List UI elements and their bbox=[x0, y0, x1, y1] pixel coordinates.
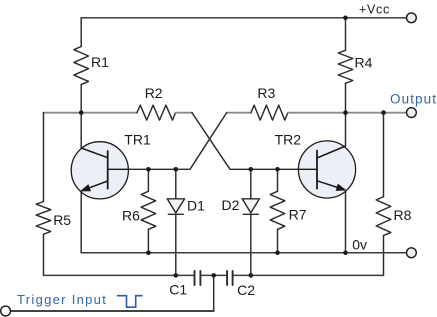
svg-text:C2: C2 bbox=[237, 282, 255, 298]
trigger pulse symbol bbox=[117, 296, 143, 308]
node trigger / C1 C2 bbox=[211, 273, 216, 278]
svg-text:Trigger Input: Trigger Input bbox=[17, 292, 107, 307]
node R7 bottom bbox=[275, 250, 280, 255]
transistor TR2 bbox=[298, 141, 356, 198]
svg-text:R5: R5 bbox=[53, 212, 71, 228]
node R8 top bbox=[381, 110, 386, 115]
svg-text:D2: D2 bbox=[222, 197, 240, 213]
wire trigger input line bbox=[11, 310, 214, 312]
resistor R5 bbox=[36, 202, 51, 235]
wire D1 column top bbox=[175, 169, 177, 199]
wire R4 column bbox=[345, 18, 347, 146]
terminal Output bbox=[407, 108, 417, 118]
diode D1 bbox=[167, 199, 184, 215]
wire R6 column top bbox=[147, 169, 149, 191]
svg-text:R2: R2 bbox=[145, 85, 163, 101]
wire R7 column bottom bbox=[277, 229, 279, 252]
node D1 bottom bbox=[174, 273, 179, 278]
wire TR1 emitter column bbox=[80, 191, 82, 253]
node D2 bottom bbox=[249, 273, 254, 278]
wire R8 column top bbox=[383, 113, 385, 197]
capacitor C2 bbox=[227, 271, 233, 285]
svg-text:TR2: TR2 bbox=[275, 132, 302, 148]
resistor R3 bbox=[251, 105, 288, 120]
svg-text:D1: D1 bbox=[187, 198, 205, 214]
svg-text:R8: R8 bbox=[394, 207, 412, 223]
wire node R1 to R2 bbox=[81, 112, 137, 114]
svg-text:R1: R1 bbox=[91, 54, 109, 70]
wire R7 column top bbox=[277, 169, 279, 191]
svg-text:R4: R4 bbox=[355, 54, 373, 70]
node TR2 emitter 0v bbox=[343, 250, 348, 255]
node R1 / R2 bbox=[79, 110, 84, 115]
resistor R4 bbox=[338, 50, 353, 83]
wire line B segment 1 bbox=[200, 274, 227, 276]
wire R2 right lead bbox=[176, 112, 192, 114]
svg-text:R6: R6 bbox=[122, 208, 140, 224]
node R7 top bbox=[275, 167, 280, 172]
wire D2 column top bbox=[250, 169, 252, 199]
wire TR2 emitter column bbox=[345, 190, 347, 252]
resistor R7 bbox=[270, 191, 285, 229]
svg-text:R7: R7 bbox=[289, 206, 307, 222]
svg-text:+Vcc: +Vcc bbox=[359, 2, 390, 16]
diode D2 bbox=[242, 199, 259, 215]
wire line B segment 2 bbox=[233, 274, 384, 276]
terminal +Vcc bbox=[407, 13, 417, 23]
wire R1 column bbox=[80, 18, 82, 148]
wire line B left segment bbox=[44, 274, 195, 276]
svg-text:R3: R3 bbox=[257, 85, 275, 101]
wire R6 column bottom bbox=[147, 229, 149, 252]
transistor TR1 bbox=[71, 142, 129, 199]
wire R5 bottom to line B bbox=[43, 234, 45, 275]
wire D2 column bottom bbox=[250, 214, 252, 275]
wire trigger vertical bbox=[213, 275, 215, 311]
svg-text:TR1: TR1 bbox=[124, 132, 151, 148]
wire 0v line A bbox=[81, 252, 406, 254]
wire left branch vertical to R5 bbox=[43, 113, 45, 202]
wire R3 left lead bbox=[227, 112, 251, 114]
node D1 top bbox=[174, 167, 179, 172]
wire R8 bottom to line B bbox=[383, 236, 385, 276]
node D2 top bbox=[249, 167, 254, 172]
wire diagonal R3 to TR1 base bbox=[108, 113, 227, 170]
wire left branch horizontal bbox=[44, 112, 82, 114]
wire diagonal R2 to TR2 base bbox=[192, 113, 317, 170]
wire output line bbox=[288, 112, 407, 114]
wire top rail bbox=[81, 17, 406, 19]
node R6 bottom bbox=[146, 250, 151, 255]
capacitor C1 bbox=[195, 271, 201, 285]
node R6 top bbox=[146, 167, 151, 172]
resistor R6 bbox=[141, 191, 156, 229]
resistor R2 bbox=[137, 105, 176, 120]
terminal 0v bbox=[407, 248, 417, 258]
wire D1 column bottom bbox=[175, 214, 177, 275]
resistor R1 bbox=[74, 47, 89, 85]
svg-text:C1: C1 bbox=[169, 281, 187, 297]
node top rail / R4 bbox=[343, 15, 348, 20]
resistor R8 bbox=[376, 197, 391, 236]
svg-text:0v: 0v bbox=[352, 237, 367, 253]
terminal Trigger Input bbox=[1, 306, 11, 316]
node R4 / output bbox=[343, 110, 348, 115]
svg-text:Output: Output bbox=[390, 92, 437, 107]
